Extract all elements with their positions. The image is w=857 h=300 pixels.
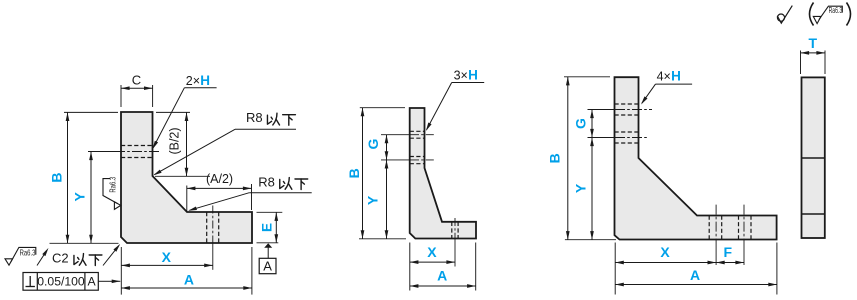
svg-text:Ra6.3: Ra6.3 bbox=[108, 177, 118, 193]
svg-text:Y: Y bbox=[72, 191, 88, 201]
svg-text:B: B bbox=[547, 153, 563, 163]
svg-text:H: H bbox=[200, 73, 210, 88]
svg-text:Y: Y bbox=[365, 195, 381, 205]
svg-text:Ra6.3: Ra6.3 bbox=[20, 247, 36, 257]
svg-text:G: G bbox=[573, 118, 589, 129]
svg-text:R8: R8 bbox=[246, 110, 263, 125]
svg-text:2×: 2× bbox=[186, 74, 200, 88]
svg-text:H: H bbox=[468, 68, 478, 83]
svg-text:R8: R8 bbox=[258, 174, 275, 189]
svg-text:X: X bbox=[660, 244, 670, 260]
svg-text:T: T bbox=[809, 35, 818, 51]
svg-text:G: G bbox=[365, 138, 381, 149]
svg-text:(B/2): (B/2) bbox=[168, 127, 182, 154]
svg-text:4×: 4× bbox=[657, 70, 671, 84]
svg-text:Y: Y bbox=[573, 183, 589, 193]
svg-text:A: A bbox=[88, 275, 97, 289]
svg-text:E: E bbox=[260, 223, 275, 232]
svg-text:A: A bbox=[690, 267, 700, 283]
svg-text:A: A bbox=[184, 272, 194, 288]
svg-text:3×: 3× bbox=[454, 69, 468, 83]
svg-text:C: C bbox=[132, 73, 141, 88]
svg-text:B: B bbox=[346, 168, 362, 178]
svg-text:(A/2): (A/2) bbox=[206, 172, 233, 186]
svg-text:B: B bbox=[49, 172, 65, 182]
svg-text:H: H bbox=[671, 69, 681, 84]
svg-text:X: X bbox=[427, 244, 437, 260]
svg-text:A: A bbox=[437, 267, 447, 283]
svg-text:F: F bbox=[724, 244, 733, 260]
svg-text:C2: C2 bbox=[52, 250, 69, 265]
svg-text:Ra6.3: Ra6.3 bbox=[829, 6, 843, 15]
svg-text:X: X bbox=[162, 249, 172, 265]
svg-text:0.05/100: 0.05/100 bbox=[37, 275, 85, 289]
svg-text:A: A bbox=[263, 258, 272, 273]
